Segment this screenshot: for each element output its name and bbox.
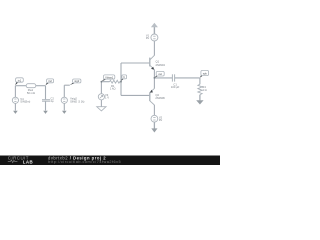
wire B jog from flag anchor	[64, 84, 70, 86]
ground arrow (small) under Vsig1	[13, 111, 18, 114]
resistor Rw1 (box style)	[26, 84, 36, 88]
junction dot C	[101, 81, 103, 83]
wire out node down to Q2 emitter	[153, 78, 155, 89]
CircuitLab logo	[8, 155, 33, 164]
svg-text:1 V: 1 V	[105, 96, 109, 100]
svg-text:SIN(0 .5 1k): SIN(0 .5 1k)	[70, 99, 84, 103]
node flag out	[155, 71, 165, 77]
svg-text:in2: in2	[48, 79, 52, 83]
wire rail to Q1 base	[121, 62, 149, 64]
node flag A2	[46, 79, 54, 85]
wire A2 down to cap C2	[45, 86, 47, 100]
ground arrow under V2	[151, 128, 157, 132]
wire A corner to resistor box	[15, 85, 26, 87]
wire cap C2 to ground arrow	[45, 102, 47, 111]
svg-text:in1: in1	[18, 78, 22, 82]
voltage source V3 (function gen)	[98, 94, 104, 100]
footer bar	[0, 156, 220, 166]
wire V1 to Q1 collector	[153, 41, 155, 56]
wire out node to cap C1	[154, 77, 172, 79]
svg-text:1 kΩ: 1 kΩ	[110, 86, 116, 90]
Q1 emitter arrow	[151, 67, 154, 70]
svg-text:http://circuitlab.com/c/74fwa2: http://circuitlab.com/c/74fwa2f6v5	[48, 160, 121, 164]
power flag arrow (up)	[151, 23, 158, 28]
node flag A1	[15, 78, 23, 86]
svg-text:4µ: 4µ	[50, 99, 53, 103]
svg-text:spk: spk	[203, 72, 208, 76]
ground arrow under R4	[196, 100, 203, 104]
wire rail to Q2 base	[121, 94, 149, 96]
svg-text:9V: 9V	[159, 118, 162, 122]
wire Q2 collector down to V2	[153, 105, 155, 115]
rail vertical	[120, 63, 122, 95]
svg-text:9V: 9V	[146, 36, 149, 40]
wire source Vsig1 to ground arrow	[14, 103, 16, 110]
svg-text:4 Ω: 4 Ω	[202, 88, 206, 92]
svg-text:LAB: LAB	[23, 159, 33, 164]
capacitor C1 plates	[172, 74, 174, 81]
wire C corner to R1	[101, 81, 109, 83]
junction dot out	[154, 77, 156, 79]
voltage source Vsig2	[61, 97, 67, 103]
wire source Vsig2 to ground arrow	[63, 103, 65, 110]
svg-text:sig2: sig2	[74, 79, 79, 83]
capacitor C2 plates	[42, 100, 50, 102]
node flag B1	[70, 79, 81, 85]
transistor Q2 PNP	[150, 88, 155, 105]
transistor Q1 NPN	[150, 55, 155, 69]
resistor R1 zigzag	[110, 80, 120, 83]
ground arrow (small) under Vsig2	[62, 111, 67, 114]
node flag right	[200, 70, 209, 77]
svg-text:50 mΩ: 50 mΩ	[27, 91, 35, 95]
svg-text:out: out	[158, 72, 162, 76]
node flag C1	[102, 75, 115, 82]
resistor R4 zigzag	[198, 84, 202, 94]
wire V2 to ground arrow	[153, 122, 155, 129]
ground triangle (hollow) under V3	[97, 107, 106, 111]
labels	[20, 33, 206, 122]
wire Q1 emitter down to out node	[153, 70, 155, 78]
ground arrow (small) under C2	[43, 111, 48, 114]
wire supply arrow shaft	[153, 27, 155, 34]
voltage source Vsig1	[12, 97, 18, 103]
wire R1 to rail	[120, 81, 121, 83]
voltage source V2 (bottom supply)	[151, 115, 158, 122]
wire B down to source Vsig2	[63, 85, 65, 97]
svg-text:Vbias1: Vbias1	[105, 75, 114, 79]
svg-text:100 µF: 100 µF	[171, 85, 180, 89]
Q2 emitter arrow	[150, 90, 153, 93]
voltage source V1 (top supply)	[151, 34, 158, 41]
svg-text:SIN(5m): SIN(5m)	[20, 100, 30, 104]
svg-text:2N3904: 2N3904	[156, 63, 166, 67]
junction dot rail	[120, 81, 122, 83]
wire R4 to ground arrow	[199, 95, 201, 101]
node flag rail (small)	[121, 75, 127, 81]
wire source V3 to ground	[100, 100, 102, 107]
svg-text:2N3906: 2N3906	[155, 96, 165, 100]
wire right corner down to R4	[199, 78, 201, 84]
wire cap C1 to right corner	[175, 77, 200, 79]
wire C down to source V3	[100, 82, 102, 94]
wire box to A2 corner	[36, 85, 46, 87]
wire A down to source Vsig1	[14, 86, 16, 98]
